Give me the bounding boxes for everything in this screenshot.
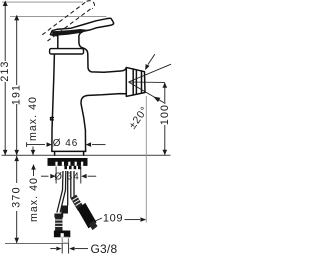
neck right and swoop into spout top — [79, 31, 126, 72]
dimension diameter 34 — [41, 167, 96, 184]
body left — [52, 54, 55, 151]
extension line handle top (191) — [10, 15, 107, 17]
dimension max40 arrows at deck — [31, 147, 36, 177]
flange (handle base plate) — [50, 49, 84, 54]
faucet body outline — [50, 18, 145, 155]
extension line top (raised lever height 213) — [2, 1, 83, 3]
base bottom — [52, 150, 86, 152]
svg-text:max. 40: max. 40 — [28, 177, 40, 222]
handle lever — [52, 18, 113, 31]
neck left — [57, 36, 59, 49]
dimension diameter 46 — [27, 142, 106, 147]
dashed raised lever — [42, 1, 94, 41]
svg-text:191: 191 — [11, 84, 23, 105]
left connector body — [54, 231, 70, 238]
svg-text:100: 100 — [159, 104, 171, 125]
jet fan line center — [129, 81, 165, 83]
svg-text:Ø 34: Ø 34 — [54, 172, 79, 183]
dimension 370 stem — [14, 156, 19, 244]
left connector nipple G3/8 — [62, 237, 68, 243]
dimension 100 stem — [163, 82, 168, 155]
right hose crimp — [71, 195, 84, 211]
right connector body — [77, 203, 96, 229]
dimension 213 stem — [3, 1, 8, 156]
deck section black band — [48, 158, 88, 166]
svg-text:213: 213 — [0, 60, 11, 81]
svg-text:370: 370 — [11, 186, 23, 208]
svg-text:Ø 46: Ø 46 — [53, 138, 78, 149]
leader arrow upper pointing at aerator — [145, 54, 155, 70]
svg-text:max. 40: max. 40 — [27, 96, 39, 141]
dimension G3/8 — [50, 239, 88, 254]
dimension 109 — [94, 217, 146, 221]
handle thick base wedge — [52, 29, 88, 36]
spout bottom — [81, 94, 126, 152]
left hose — [57, 171, 66, 213]
aerator collar — [126, 68, 145, 97]
svg-text:109: 109 — [103, 213, 123, 225]
right hose — [71, 171, 83, 210]
handle heel — [50, 31, 57, 36]
left hose crimp — [54, 214, 63, 218]
right connector nipple — [89, 220, 98, 230]
outlet vertical extension line — [145, 96, 147, 223]
jet fan line upper (+20 deg) — [129, 64, 172, 82]
hose end reference line — [5, 242, 69, 244]
set screw nub on body left — [51, 118, 54, 120]
leader arrow lower pointing at aerator — [153, 97, 160, 103]
deck band notches — [55, 162, 83, 166]
svg-text:G3/8: G3/8 — [91, 242, 118, 256]
jet fan line lower (-20 deg) — [129, 82, 165, 103]
shank thread teeth — [64, 166, 80, 169]
mounting stud rod — [67, 171, 69, 206]
deck / mounting surface line — [2, 154, 171, 156]
dimension 191 stem — [14, 15, 19, 155]
